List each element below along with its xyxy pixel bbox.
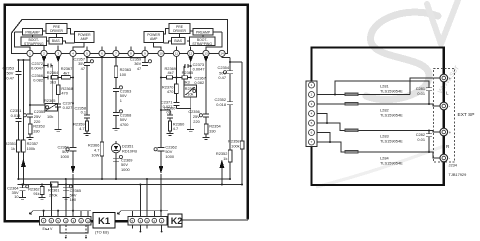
svg-text:0.018: 0.018: [216, 102, 226, 107]
svg-text:R2364: R2364: [47, 70, 59, 75]
capacitor C2360: [167, 115, 173, 121]
resistor R2351: [17, 140, 21, 152]
inductor L282: [345, 102, 358, 105]
capacitor C2353: [15, 72, 21, 140]
capacitor C2351: [15, 119, 21, 122]
resistor R2361: [51, 182, 59, 187]
svg-text:J234: J234: [449, 163, 458, 168]
svg-text:0.018: 0.018: [11, 113, 21, 118]
svg-text:TLS159054E: TLS159054E: [380, 161, 403, 166]
svg-text:10W: 10W: [91, 152, 99, 157]
svg-text:4.7: 4.7: [173, 126, 178, 131]
capacitor C2364: [19, 185, 25, 198]
svg-text:3k3: 3k3: [183, 79, 189, 84]
wire pin5-9 stubs: [87, 57, 145, 143]
K2 under marks: [132, 226, 161, 232]
block BIAS R: [172, 38, 186, 45]
block POWER AMP R: [144, 32, 164, 43]
svg-text:3k3: 3k3: [50, 80, 56, 85]
svg-text:10: 10: [159, 52, 163, 56]
rail pin11: [175, 57, 177, 85]
IC pins 1-14: [27, 50, 225, 56]
svg-text:0.082: 0.082: [33, 78, 43, 83]
rail pin10 output: [160, 57, 162, 148]
chassis ground K2: [118, 211, 122, 215]
inductor L283: [345, 129, 358, 132]
resistor R2366 4.7 10W: [100, 142, 104, 156]
IC block labels: [24, 25, 212, 46]
connector K1 label box: [93, 213, 115, 229]
svg-text:12: 12: [189, 52, 193, 56]
wire + input arrow R: [221, 168, 223, 185]
junction dots: [326, 93, 430, 153]
rail pin12 + input arrow: [190, 57, 192, 78]
svg-text:EXT SP: EXT SP: [458, 112, 475, 118]
capacitor C2352: [227, 102, 233, 150]
resistor R2353: [28, 124, 32, 134]
capacitor C282: [426, 131, 432, 153]
svg-text:0.47: 0.47: [6, 76, 14, 81]
svg-text:+: +: [449, 130, 452, 135]
capacitor C281: [426, 88, 432, 104]
capacitor C2370: [55, 104, 61, 129]
resistor R2367: [70, 77, 73, 79]
block BOOT-STRAPPING L: [21, 37, 47, 46]
wire zobel R: [161, 110, 170, 115]
resistor R2365 (preset): [45, 104, 58, 112]
block PREAMP L: [23, 29, 43, 36]
capacitor C2372: [44, 63, 53, 67]
resistor R2360: [168, 121, 171, 131]
block BIAS L: [49, 38, 63, 45]
wire pin7 to R-: [317, 142, 441, 158]
wire elbow pin1 node: [30, 104, 45, 106]
svg-text:PREAMP: PREAMP: [25, 30, 40, 34]
resistor R2363: [114, 66, 118, 78]
signal arrow down R: [159, 166, 164, 174]
svg-text:10k: 10k: [47, 114, 53, 119]
svg-text:0.027: 0.027: [163, 104, 173, 109]
connector K1 body: [40, 216, 92, 225]
riser wires K1: [44, 179, 88, 217]
capacitor C2355: [27, 114, 33, 124]
block PREAMP R: [193, 29, 213, 36]
resistor R2359: [85, 121, 88, 131]
svg-text:TLS159054E: TLS159054E: [380, 113, 403, 118]
rail pin13 + input arrow: [205, 57, 207, 114]
svg-text:220: 220: [193, 119, 200, 124]
IC U2301 body: [12, 20, 228, 54]
svg-text:BIAS: BIAS: [52, 39, 60, 43]
svg-text:4700: 4700: [120, 122, 129, 127]
svg-text:100: 100: [70, 197, 77, 202]
wire bus K1: [33, 210, 91, 212]
svg-text:1: 1: [120, 98, 122, 103]
svg-text:100k: 100k: [231, 143, 239, 148]
svg-text:R2365: R2365: [44, 98, 55, 103]
svg-text:0.1: 0.1: [167, 110, 172, 115]
capacitor C2354: [227, 71, 233, 102]
capacitor C2361: [70, 148, 77, 166]
capacitor C2359: [142, 63, 148, 66]
wire K2 to frame corner: [182, 218, 248, 220]
svg-text:270k: 270k: [49, 192, 57, 197]
capacitor C2358: [84, 115, 90, 121]
svg-text:R2366: R2366: [185, 87, 196, 91]
capacitor C2356: [203, 114, 209, 124]
riser wires K2: [132, 179, 154, 217]
wire bus K2: [121, 210, 168, 212]
svg-text:330: 330: [209, 128, 216, 133]
resistor R2364: [52, 76, 59, 80]
svg-text:L: L: [446, 91, 449, 96]
svg-text:RD10FB: RD10FB: [122, 148, 137, 153]
ground: [203, 138, 210, 140]
watermark: [316, 0, 461, 187]
svg-text:PREAMP: PREAMP: [196, 30, 211, 34]
bus between K1 and K2: [91, 220, 128, 222]
svg-text:0.47: 0.47: [218, 75, 226, 80]
svg-text:1000: 1000: [60, 154, 69, 159]
connector P (7 pin) body: [306, 81, 317, 147]
svg-text:91k: 91k: [33, 191, 39, 196]
capacitor C2371: [173, 102, 190, 108]
resistor R2370: [175, 84, 179, 94]
svg-text:4.7: 4.7: [79, 126, 84, 131]
svg-text:11: 11: [175, 52, 178, 56]
svg-text:0.01: 0.01: [417, 91, 425, 96]
svg-text:0.027: 0.027: [63, 105, 73, 110]
capacitor C2357: [84, 63, 90, 115]
supply link wire: [87, 56, 145, 58]
svg-text:1k: 1k: [223, 156, 227, 161]
dashed terminal box J204: [433, 69, 454, 163]
svg-text:4k7: 4k7: [63, 70, 69, 75]
ground: [55, 130, 62, 132]
svg-text:470: 470: [61, 90, 68, 95]
IC internal wires left: [15, 29, 116, 51]
svg-text:R2365: R2365: [182, 70, 193, 75]
ground: [84, 133, 91, 135]
svg-text:1000: 1000: [121, 167, 130, 172]
svg-text:47: 47: [81, 66, 85, 71]
terminal L+: [440, 74, 448, 162]
svg-text:14: 14: [220, 52, 224, 56]
capacitor C2365: [63, 185, 69, 198]
block BOOT-STRAPPING R: [190, 37, 216, 46]
svg-text:1000: 1000: [165, 154, 174, 159]
svg-text:0.01: 0.01: [417, 137, 425, 142]
svg-text:100: 100: [120, 72, 127, 77]
svg-text:STRAPPING: STRAPPING: [24, 42, 44, 46]
svg-text:DRIVER: DRIVER: [173, 29, 186, 33]
svg-text:TLS159054E: TLS159054E: [380, 89, 403, 94]
ground: [187, 130, 194, 132]
svg-text:0.0047: 0.0047: [31, 66, 43, 71]
svg-text:100k: 100k: [27, 146, 35, 151]
board edge through terminals: [443, 82, 445, 154]
svg-text:10k: 10k: [187, 92, 193, 96]
rail pin3 + input arrow: [57, 57, 59, 86]
capacitor C2368: [113, 113, 119, 129]
resistor R2362: [41, 185, 43, 198]
wire pin2 to L+: [317, 78, 441, 95]
svg-text:(TO E8): (TO E8): [95, 230, 109, 235]
inductor L284: [345, 150, 358, 153]
svg-text:STRAPPING: STRAPPING: [192, 42, 212, 46]
board outline: [312, 48, 444, 186]
resistor R2368: [56, 85, 60, 95]
ground: [27, 138, 34, 140]
capacitor C2373: [184, 64, 191, 85]
svg-text:0.0047: 0.0047: [193, 66, 205, 71]
ground: [167, 133, 174, 135]
rail pin14 jog: [222, 57, 242, 142]
signal arrow down L: [71, 166, 76, 174]
svg-text:TLS159054E: TLS159054E: [380, 139, 403, 144]
svg-text:TJB17929: TJB17929: [449, 172, 467, 177]
rail pin2 + input arrow: [43, 57, 45, 104]
capacitor C2363: [113, 89, 119, 113]
svg-text:470: 470: [167, 89, 174, 94]
resistor R2365B 3k3: [176, 77, 190, 79]
svg-text:4k7: 4k7: [168, 70, 174, 75]
capacitor C2366: [44, 66, 53, 104]
resistor R2369: [161, 77, 176, 79]
ground: [113, 129, 120, 131]
svg-text:AMP: AMP: [81, 37, 89, 41]
wire pin3 to L-: [317, 104, 441, 106]
IC internal wires right: [131, 29, 222, 51]
svg-text:330: 330: [33, 128, 40, 133]
capacitor C2362: [158, 148, 165, 166]
resistor R2366 (preset 10k): [184, 85, 197, 97]
svg-text:1k: 1k: [11, 146, 15, 151]
wire pin5 to R+: [317, 123, 441, 132]
sheet frame thick: [5, 5, 248, 222]
rail pin4 output: [72, 57, 74, 148]
svg-text:0.1: 0.1: [81, 110, 86, 115]
svg-text:0.082: 0.082: [194, 80, 204, 85]
svg-text:AMP: AMP: [150, 37, 158, 41]
resistor R2358: [240, 141, 244, 149]
chassis ground K1: [30, 211, 34, 215]
node line B: [18, 184, 243, 186]
block PRE DRIVER R: [169, 24, 190, 34]
capacitor C2369: [113, 158, 119, 161]
resistor R2352: [228, 150, 232, 162]
block PRE DRIVER L: [46, 24, 67, 34]
svg-text:DRIVER: DRIVER: [50, 29, 63, 33]
wire branch to C281: [335, 81, 429, 95]
node line A: [18, 178, 231, 180]
svg-text:K1: K1: [98, 216, 111, 227]
wire link pins1-3 rails: [18, 57, 30, 141]
wire pin6 join: [317, 133, 330, 143]
svg-text:K2: K2: [171, 216, 183, 226]
K1 under marks: [60, 226, 88, 234]
wire + input arrow L: [22, 152, 24, 185]
resistor R2354: [204, 124, 208, 134]
inductor L281: [345, 93, 358, 96]
block POWER AMP L: [75, 32, 95, 43]
diode D2351: [115, 141, 117, 179]
connector K2 body: [128, 216, 167, 225]
svg-text:+: +: [449, 76, 452, 81]
svg-text:47: 47: [137, 66, 141, 71]
svg-text:BIAS: BIAS: [174, 39, 182, 43]
resistor R2357: [22, 140, 26, 152]
wire pin4 join: [317, 114, 327, 124]
connector K2 label box: [168, 214, 182, 227]
svg-text:13: 13: [204, 52, 208, 56]
